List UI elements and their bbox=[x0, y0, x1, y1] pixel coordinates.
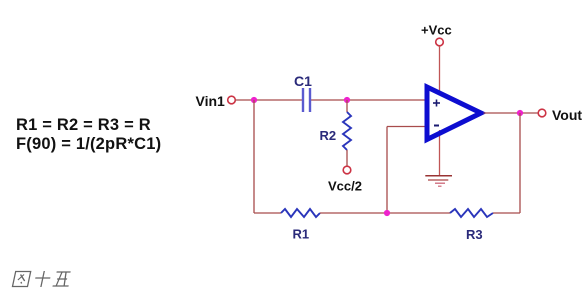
wire bottom rail left (through R1) bbox=[254, 212, 281, 214]
wire R2 to Vcc/2 terminal bbox=[346, 150, 348, 166]
wire output branch vertical bbox=[519, 113, 521, 213]
terminal Vcc/2 bbox=[343, 166, 351, 174]
五 bbox=[57, 271, 71, 273]
junction node D (feedback on bottom rail) bbox=[384, 210, 390, 216]
junction node B (after C1, top of R2) bbox=[344, 97, 350, 103]
resistor R3 bbox=[450, 209, 493, 217]
wire op-amp output to Vout bbox=[484, 112, 539, 114]
svg-text:R2: R2 bbox=[320, 128, 337, 143]
svg-text:R1 = R2 = R3 = R: R1 = R2 = R3 = R bbox=[16, 116, 151, 134]
ground bbox=[425, 176, 452, 187]
wire Vin1 to C1 bbox=[236, 99, 303, 101]
resistor R1 bbox=[281, 209, 320, 217]
wire left branch vertical bbox=[253, 100, 255, 213]
caption 图十五 (drawn strokes) bbox=[12, 271, 71, 287]
terminal Vout bbox=[538, 109, 546, 117]
wire +Vcc to op-amp power pin bbox=[439, 46, 441, 95]
pin - (inverting input) bbox=[434, 125, 439, 127]
wire C1 to op-amp + input bbox=[311, 99, 427, 101]
capacitor C1 bbox=[303, 88, 310, 112]
wire op-amp ground pin bbox=[439, 130, 441, 175]
wire bottom rail middle bbox=[320, 212, 450, 214]
wire feedback vertical bbox=[386, 127, 388, 214]
svg-text:R1: R1 bbox=[293, 227, 310, 242]
junction node C (output branch) bbox=[517, 110, 523, 116]
svg-text:Vin1: Vin1 bbox=[196, 93, 226, 109]
resistor R2 bbox=[343, 112, 351, 150]
wire feedback to op-amp - input bbox=[387, 126, 427, 128]
junction node A (Vin1 branch) bbox=[251, 97, 257, 103]
svg-text:F(90) = 1/(2pR*C1): F(90) = 1/(2pR*C1) bbox=[16, 135, 161, 153]
svg-text:R3: R3 bbox=[466, 227, 483, 242]
terminal Vin1 bbox=[228, 96, 236, 104]
svg-text:Vout: Vout bbox=[552, 107, 582, 123]
wire bottom rail right bbox=[493, 212, 520, 214]
op-amp U1 bbox=[427, 87, 481, 140]
wire node B to R2 bbox=[346, 100, 348, 112]
十 bbox=[35, 277, 50, 279]
pin + (non-inverting input) bbox=[433, 100, 440, 107]
terminal +Vcc bbox=[436, 38, 444, 46]
svg-text:+Vcc: +Vcc bbox=[421, 23, 452, 38]
图 bbox=[12, 272, 30, 287]
svg-text:Vcc/2: Vcc/2 bbox=[328, 179, 362, 194]
svg-text:C1: C1 bbox=[294, 73, 312, 89]
